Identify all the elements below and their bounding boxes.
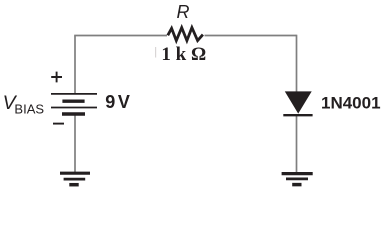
wire left vertical (battery + to top rail): [74, 36, 76, 95]
svg-text:R: R: [177, 2, 190, 22]
minus sign: [53, 123, 64, 125]
ground left bar 3: [69, 183, 78, 187]
battery plate short thick 2: [62, 112, 85, 115]
ground left bar 1: [60, 172, 90, 175]
battery plate long 2: [51, 107, 97, 109]
faint print artifact tick: [155, 47, 157, 58]
diode cathode bar: [283, 114, 312, 116]
plus sign: [51, 72, 62, 83]
svg-text:1 k Ω: 1 k Ω: [161, 44, 206, 65]
svg-text:VBIAS: VBIAS: [3, 92, 45, 117]
wire right vertical (to diode anode): [296, 35, 298, 93]
wire battery - to left ground: [74, 115, 76, 173]
diode D1 triangle (anode): [286, 92, 312, 113]
ground right bar 2: [286, 177, 308, 180]
wire top rail left (to resistor): [74, 35, 167, 37]
wire diode cathode to right ground: [296, 116, 298, 173]
ground right bar 3: [292, 183, 301, 187]
battery plate short thick 1: [62, 99, 84, 102]
svg-text:9 V: 9 V: [105, 92, 130, 112]
ground left bar 2: [64, 178, 86, 181]
battery V_BIAS plate long top: [51, 93, 97, 95]
wire top rail right (resistor to right corner): [205, 35, 297, 37]
ground right bar 1: [282, 172, 313, 175]
svg-text:1N4001: 1N4001: [321, 93, 381, 112]
resistor R1 zigzag: [168, 28, 203, 41]
